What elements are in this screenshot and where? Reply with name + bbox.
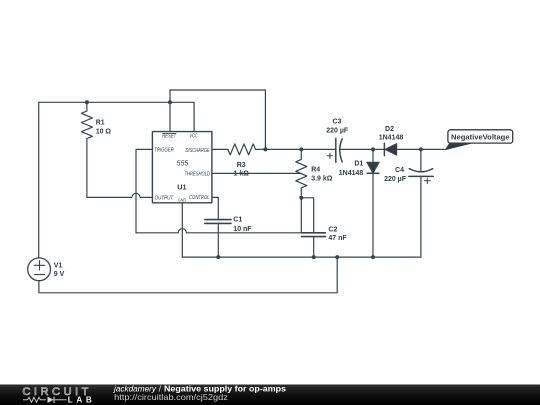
wire R3 to R4 top xyxy=(256,148,302,150)
svg-text:THRESHOLD: THRESHOLD xyxy=(185,171,211,177)
footer title xyxy=(113,385,286,394)
C3 plus sign xyxy=(327,153,332,158)
label C2 xyxy=(328,226,347,242)
svg-text:U1: U1 xyxy=(177,183,186,192)
wire OUTPUT to R1 bottom (with hop) xyxy=(87,193,152,197)
svg-text:3.9 kΩ: 3.9 kΩ xyxy=(311,176,333,183)
wire top rail lower (+9V rail) xyxy=(39,102,194,131)
label R1 xyxy=(96,119,112,135)
svg-text:C1: C1 xyxy=(233,217,242,224)
svg-text:C2: C2 xyxy=(328,226,337,233)
label 555 xyxy=(177,160,189,167)
wire CONTROL to C1 xyxy=(212,197,218,219)
svg-text:http://circuitlab.com/cj52gdz: http://circuitlab.com/cj52gdz xyxy=(114,392,228,402)
capacitor C3 (polarized) xyxy=(336,138,342,162)
svg-text:C3: C3 xyxy=(333,118,342,125)
pin VCC xyxy=(190,134,198,140)
diode D1 xyxy=(367,149,379,257)
svg-text:C4: C4 xyxy=(395,167,404,174)
wire top rail upper (RESET to DISCHARGE feedback) xyxy=(170,90,265,149)
C4 plus sign xyxy=(424,178,430,184)
pin RESET (with overline) xyxy=(162,133,177,139)
svg-text:NegativeVoltage: NegativeVoltage xyxy=(451,132,510,141)
resistor R4 xyxy=(296,149,307,197)
wire R4 bottom jog to C2 xyxy=(301,198,313,233)
wire GND down xyxy=(181,203,183,257)
voltage source V1 xyxy=(28,258,51,281)
diode D2 xyxy=(384,143,396,155)
svg-text:GND: GND xyxy=(178,197,186,202)
svg-text:220 µF: 220 µF xyxy=(384,176,407,183)
label R4 xyxy=(311,167,333,183)
flag NegativeVoltage xyxy=(444,130,512,151)
svg-text:10 nF: 10 nF xyxy=(233,226,252,233)
svg-text:R1: R1 xyxy=(96,119,105,126)
wire left vertical from rail to V1 xyxy=(38,102,40,258)
node R3 right / feedback xyxy=(263,147,267,151)
svg-text:R4: R4 xyxy=(311,167,320,174)
wire TRIGGER down-left xyxy=(136,149,152,232)
wire DISCHARGE stub xyxy=(212,148,228,150)
svg-text:220 µF: 220 µF xyxy=(326,128,349,135)
footer bar xyxy=(0,385,540,405)
capacitor C1 xyxy=(205,220,231,224)
svg-text:DISCHARGE: DISCHARGE xyxy=(186,148,211,154)
node V1 return rail xyxy=(335,255,339,259)
label D1 xyxy=(339,160,364,177)
svg-text:RESET: RESET xyxy=(162,134,177,140)
wire C1 bottom xyxy=(217,223,219,257)
label C3 xyxy=(326,118,349,134)
label D2 xyxy=(379,126,404,141)
svg-text:10 Ω: 10 Ω xyxy=(96,129,112,136)
svg-text:TRIGGER: TRIGGER xyxy=(154,148,174,154)
node junction dots xyxy=(85,100,423,259)
wire D2 to flag anchor xyxy=(397,148,445,150)
node R1 top xyxy=(85,100,89,104)
node RESET/VCC rail xyxy=(168,100,172,104)
svg-text:CONTROL: CONTROL xyxy=(189,195,210,201)
pin OUTPUT xyxy=(155,196,174,202)
label V1 xyxy=(54,262,65,278)
wire V1 return path xyxy=(39,257,337,293)
node D1 top xyxy=(371,147,375,151)
wire D1 node to D2 xyxy=(373,148,384,150)
wire C3 to D1 node xyxy=(341,148,373,150)
capacitor C4 (polarized) xyxy=(409,149,434,257)
svg-text:1N4148: 1N4148 xyxy=(379,134,404,141)
component value labels xyxy=(54,118,407,277)
svg-text:9 V: 9 V xyxy=(54,271,65,278)
node R4 top xyxy=(299,147,303,151)
pin TRIGGER xyxy=(154,148,174,154)
label C4 xyxy=(384,167,407,183)
pin THRESHOLD xyxy=(185,171,211,177)
resistor R3 xyxy=(228,144,256,155)
label U1 xyxy=(177,183,186,192)
node C2 bottom rail xyxy=(312,255,316,259)
svg-text:LAB: LAB xyxy=(68,395,92,404)
svg-text:R3: R3 xyxy=(237,162,246,169)
U1 pin labels xyxy=(154,133,210,202)
svg-text:D1: D1 xyxy=(354,160,363,167)
wire trigger to C2 node (with hop over GND) xyxy=(136,229,301,233)
wire R4 top to C3 xyxy=(301,148,336,150)
pin DISCHARGE xyxy=(186,148,211,154)
op-amp U1 555 chip body xyxy=(152,132,212,203)
wire RESET riser xyxy=(169,90,171,132)
label C1 xyxy=(233,217,252,234)
pin GND xyxy=(178,197,186,202)
node C1 bottom rail xyxy=(216,255,220,259)
svg-text:V1: V1 xyxy=(54,262,63,269)
svg-text:1 kΩ: 1 kΩ xyxy=(234,170,250,177)
wire bottom rail xyxy=(182,256,421,258)
capacitor C2 xyxy=(302,233,326,237)
svg-text:1N4148: 1N4148 xyxy=(339,170,364,177)
resistor R1 xyxy=(81,102,92,197)
svg-text:D2: D2 xyxy=(385,126,394,133)
node R4 bottom xyxy=(299,196,303,200)
svg-text:VCC: VCC xyxy=(190,134,198,140)
node D1 bottom rail xyxy=(371,255,375,259)
label R3 xyxy=(234,162,250,177)
wire C2 bottom xyxy=(313,237,315,258)
wire R4 bottom to trigger wire xyxy=(300,198,302,233)
pin CONTROL xyxy=(189,195,210,201)
wire THRESHOLD to R4 xyxy=(212,172,301,174)
svg-text:47 nF: 47 nF xyxy=(328,235,347,242)
svg-text:555: 555 xyxy=(177,160,189,167)
logo CIRCUIT LAB xyxy=(22,386,91,404)
svg-text:OUTPUT: OUTPUT xyxy=(155,196,174,202)
node C4 top xyxy=(419,147,423,151)
